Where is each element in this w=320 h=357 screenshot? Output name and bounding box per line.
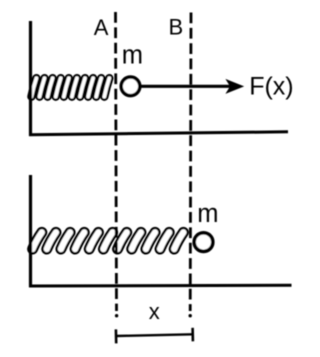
svg-text:F(x): F(x): [249, 72, 293, 100]
node A dashed reference line: [116, 12, 117, 311]
wall bottom panel: [29, 175, 32, 287]
mass m top panel circle: [121, 77, 140, 96]
dimension tick left: [115, 329, 118, 343]
node B dashed reference line: [189, 13, 193, 312]
floor bottom panel: [29, 284, 292, 288]
spring top panel (compressed): [31, 78, 109, 96]
node B dashed line end dot: [189, 314, 192, 317]
svg-text:m: m: [122, 41, 143, 69]
mass m bottom panel circle: [194, 233, 213, 252]
svg-text:A: A: [94, 15, 109, 40]
node A dashed line end dot: [115, 314, 118, 317]
floor top panel: [29, 132, 288, 135]
force arrow shaft: [141, 85, 231, 88]
wall top panel: [29, 21, 32, 136]
svg-text:B: B: [169, 14, 184, 39]
dimension line x: [116, 334, 193, 336]
spring bottom panel (stretched): [33, 232, 184, 249]
svg-text:x: x: [149, 299, 160, 324]
force arrow head: [225, 79, 244, 94]
dimension tick right: [191, 328, 194, 342]
svg-text:m: m: [197, 200, 218, 228]
